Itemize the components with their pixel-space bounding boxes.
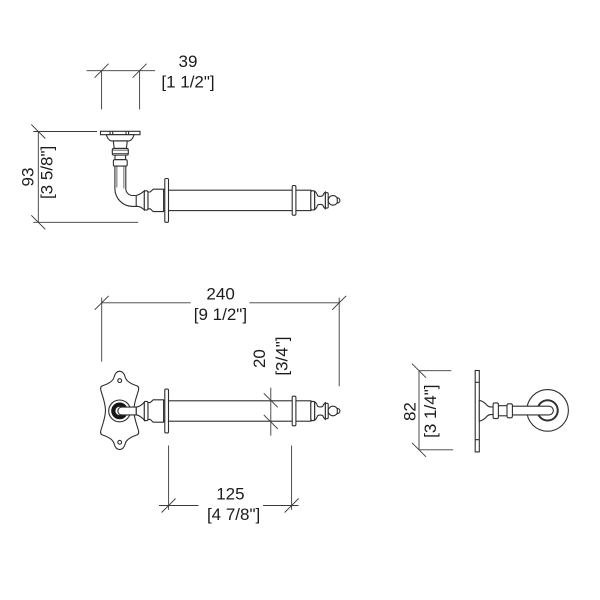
svg-text:125: 125 bbox=[216, 485, 244, 504]
tick right bbox=[133, 64, 147, 78]
dimension line bbox=[418, 371, 420, 450]
tick top bbox=[412, 364, 426, 378]
roller bar assembly (front view) bbox=[144, 389, 340, 433]
svg-text:[1 1/2"]: [1 1/2"] bbox=[161, 73, 214, 92]
stem ring 1 side bbox=[493, 403, 498, 419]
elbow flare bbox=[136, 191, 144, 210]
extension line left bbox=[101, 71, 103, 110]
tick bottom bbox=[264, 415, 278, 429]
extension line bottom bbox=[419, 449, 453, 451]
extension line right bbox=[291, 446, 293, 510]
svg-text:93: 93 bbox=[18, 168, 37, 187]
extension line right bbox=[139, 71, 141, 110]
outer rose circle bbox=[527, 390, 569, 432]
dimension line right segment bbox=[249, 302, 339, 304]
boss outer circle bbox=[109, 400, 131, 422]
extension line left bbox=[168, 446, 170, 510]
tick bottom bbox=[412, 443, 426, 457]
stem tube and elbow bbox=[115, 166, 142, 206]
collar inner circle bbox=[538, 401, 557, 420]
plate screw notches bbox=[475, 382, 479, 439]
dimension line bbox=[87, 70, 156, 72]
extension line bottom bbox=[33, 221, 138, 223]
stem bar with ball end bbox=[118, 407, 136, 415]
stem ring 1 bbox=[112, 148, 128, 155]
dimension line left segment bbox=[102, 302, 191, 304]
extension line right bbox=[338, 298, 340, 387]
svg-text:[9 1/2"]: [9 1/2"] bbox=[194, 305, 247, 324]
dimension line left segment bbox=[159, 505, 199, 507]
svg-text:[3 1/4"]: [3 1/4"] bbox=[421, 385, 440, 438]
extension line top bbox=[33, 131, 97, 133]
tick left bbox=[95, 64, 109, 78]
screw hole top bbox=[118, 379, 122, 383]
stem cove bbox=[115, 155, 126, 160]
svg-text:[3 5/8"]: [3 5/8"] bbox=[38, 146, 57, 199]
escutcheon wall plate bbox=[101, 371, 139, 449]
tick bottom bbox=[31, 215, 45, 229]
mounting bell bbox=[106, 135, 134, 141]
svg-text:39: 39 bbox=[179, 52, 198, 71]
arm bar end-on bbox=[512, 406, 554, 415]
svg-text:20: 20 bbox=[250, 349, 269, 368]
tick left bbox=[162, 499, 176, 513]
stem neck bbox=[113, 141, 127, 149]
svg-text:82: 82 bbox=[401, 402, 420, 421]
wall plate seen from above bbox=[101, 131, 141, 134]
stem flare bbox=[136, 402, 144, 420]
dimension line right segment bbox=[263, 505, 299, 507]
stem mounting bell side bbox=[479, 400, 494, 421]
roller bar assembly (top view) bbox=[144, 179, 340, 223]
collar ring circle bbox=[537, 400, 558, 421]
tick right bbox=[332, 296, 346, 310]
dimension line bbox=[270, 388, 272, 436]
extension line left bbox=[101, 298, 103, 362]
svg-text:240: 240 bbox=[206, 284, 234, 303]
svg-text:[3/4"]: [3/4"] bbox=[272, 337, 291, 376]
dimension line bbox=[37, 132, 39, 223]
tick right bbox=[285, 499, 299, 513]
stem ring 1 bevel lines bbox=[113, 150, 129, 153]
svg-text:[4 7/8"]: [4 7/8"] bbox=[207, 505, 260, 524]
stem ring 2 bbox=[113, 160, 127, 166]
wall plate edge-on bbox=[475, 371, 479, 452]
plate screw notch lines bbox=[110, 131, 129, 134]
stem cove side bbox=[497, 406, 509, 416]
tick left bbox=[95, 296, 109, 310]
stem ring 2 side bbox=[507, 404, 512, 418]
stem tube highlight lines bbox=[117, 166, 124, 188]
tick top bbox=[264, 393, 278, 407]
screw hole bottom bbox=[118, 440, 122, 444]
boss dark ring bbox=[113, 405, 126, 418]
tick top bbox=[31, 125, 45, 139]
extension line top bbox=[419, 370, 451, 372]
